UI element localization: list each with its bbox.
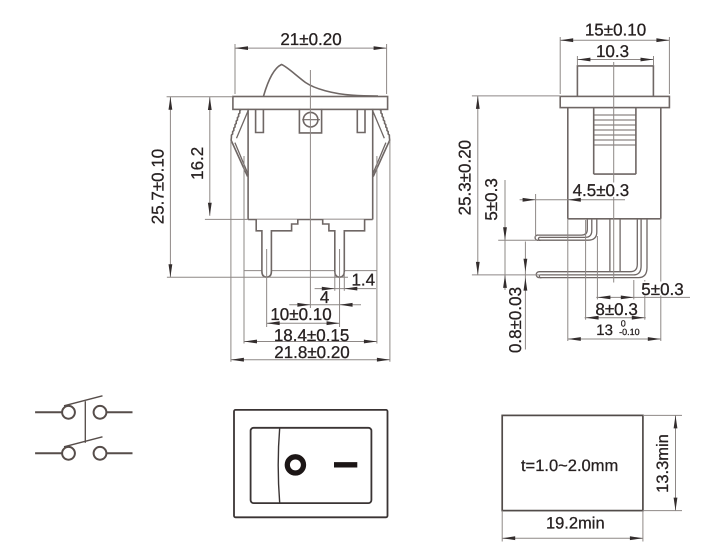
dim 1.4 line: [315, 288, 376, 290]
upper bent terminal lines: [535, 219, 647, 278]
svg-text:19.2min: 19.2min: [546, 515, 605, 533]
arrows dim 15: [560, 38, 573, 42]
ROCKER TOP VIEW GROUP: [234, 410, 388, 517]
arrows dim 21: [235, 46, 248, 50]
outer bezel: [234, 410, 388, 517]
arrows dim 10.3: [577, 58, 590, 62]
dim 5 right line: [596, 296, 690, 298]
dim 5 left ext (strip bottom extended): [498, 239, 537, 241]
right pin axis line: [339, 249, 341, 327]
svg-text:5±0.3: 5±0.3: [641, 280, 683, 299]
dim 21 extension lines: [234, 44, 236, 94]
side view dimension texts: [456, 20, 684, 353]
screw circle: [303, 112, 318, 127]
dim 19.2 line: [502, 537, 643, 539]
arrows dim 1.4: [322, 287, 335, 291]
mechanical link: [84, 401, 86, 443]
arrows dim 8: [586, 316, 599, 320]
arrows dim 16.2: [208, 97, 212, 110]
right snap wing inner lines: [373, 111, 386, 175]
SIDE VIEW DIMENSIONS: [472, 37, 690, 350]
wire left top: [35, 411, 62, 413]
side flange: [560, 96, 669, 107]
text mask 4.5: [571, 183, 631, 198]
right hanging tab: [357, 109, 365, 132]
dim 15 line: [560, 39, 669, 41]
side body bottom: [568, 218, 661, 220]
arrows dim 21.8: [231, 358, 244, 362]
svg-text:5±0.3: 5±0.3: [482, 178, 501, 220]
FRONT VIEW GROUP: [231, 65, 390, 220]
arrows dim 13: [568, 337, 581, 341]
wire right top: [106, 411, 132, 413]
arrows dim 13.3: [674, 415, 678, 428]
arrows dim 19.2: [502, 536, 515, 540]
side rocker button: [577, 66, 653, 97]
FRONT VIEW DIMENSIONS: [167, 44, 390, 362]
svg-text:21±0.20: 21±0.20: [280, 30, 341, 49]
dim 21.8 ext lines: [230, 141, 232, 362]
screw slot line: [302, 119, 320, 121]
arrows dim 5 right: [597, 296, 610, 300]
center line front view: [309, 70, 311, 308]
left pin axis line: [266, 249, 268, 327]
center screw block: [299, 109, 321, 133]
dim 4.5 ext line at bent tip: [535, 194, 537, 237]
svg-text:0.8±0.03: 0.8±0.03: [506, 287, 525, 353]
svg-text:10±0.10: 10±0.10: [270, 305, 331, 324]
svg-text:15±0.10: 15±0.10: [585, 20, 646, 39]
arrows dim 4: [297, 303, 310, 307]
detent strip bottom: [594, 173, 636, 175]
flange: [233, 97, 388, 110]
svg-text:t=1.0~2.0mm: t=1.0~2.0mm: [521, 457, 618, 475]
dim 13.3 line: [675, 415, 677, 510]
body right side: [372, 109, 374, 220]
dim 25.3 line: [477, 96, 479, 275]
dim 18.4 line: [244, 341, 377, 343]
svg-text:1.4: 1.4: [351, 270, 375, 289]
O symbol: [287, 457, 303, 473]
left snap wing serrated edge: [231, 110, 248, 177]
inner rocker window: [251, 428, 372, 503]
arrows dim 5 left: [503, 227, 507, 240]
dim 0.8 line: [524, 242, 526, 350]
dim 10.3 line: [577, 59, 653, 61]
svg-text:13.3min: 13.3min: [654, 434, 672, 493]
dim 4 line: [289, 304, 361, 306]
side view dimension arrows: [476, 38, 670, 341]
rocker actuator curve: [264, 65, 379, 97]
svg-text:13: 13: [596, 322, 613, 339]
dim 5 left line: [504, 180, 506, 290]
switch lever bottom: [64, 437, 103, 447]
svg-text:8±0.3: 8±0.3: [595, 300, 637, 319]
dim 21.8 line: [231, 359, 390, 361]
dim 10.3 ext lines (rocker sides up): [576, 56, 578, 66]
panel dim arrows: [502, 415, 677, 540]
lower mid terminal (face-on): [609, 219, 611, 272]
arrows dim 10: [267, 321, 280, 325]
rocker tilt edge: [278, 428, 280, 503]
contact circle pin 1: [62, 406, 75, 419]
left hanging tab: [256, 109, 264, 132]
svg-text:-0.10: -0.10: [619, 327, 640, 337]
right snap wing serrated edge: [373, 110, 390, 177]
right pin pedestal and pin: [323, 220, 365, 278]
dim 4.5 line: [520, 199, 625, 201]
dim 8 line: [585, 317, 646, 319]
switch lever top: [64, 396, 103, 406]
svg-text:25.7±0.10: 25.7±0.10: [149, 149, 168, 225]
detent ridges: [594, 115, 636, 145]
side body left: [567, 108, 569, 219]
dim 15 ext lines: [559, 37, 561, 94]
left pin pedestal and pin: [256, 220, 298, 278]
dim 16.2 line: [209, 97, 211, 216]
lower bent terminal lines: [539, 219, 637, 272]
left snap wing inner lines: [235, 111, 248, 175]
arrows dim 25.3: [476, 96, 480, 109]
dim 8 ext lines: [585, 220, 587, 320]
arrows dim 25.7: [169, 97, 173, 110]
contact circle pin 2: [94, 406, 107, 419]
dim 10 line: [267, 322, 340, 324]
svg-text:10.3: 10.3: [596, 42, 629, 61]
contact circle pin 3: [62, 447, 75, 460]
front view dimension texts: [149, 30, 376, 362]
side body right: [660, 108, 662, 219]
dim 13 line: [568, 338, 661, 340]
front view dimension arrows: [169, 46, 390, 361]
detent strip sides: [593, 108, 595, 175]
arrows dim 18.4: [244, 340, 257, 344]
dim 19.2 ext lines: [501, 511, 503, 542]
text mask 5 right: [641, 282, 684, 296]
dim 16.2 extension bottom (body bottom extended): [205, 218, 248, 220]
dim 25.7 line: [169, 97, 171, 278]
svg-text:25.3±0.20: 25.3±0.20: [456, 140, 475, 216]
dim 21 line: [235, 47, 387, 49]
svg-text:4.5±0.3: 4.5±0.3: [573, 181, 630, 200]
dim 25.7 extension bottom: [167, 276, 348, 278]
arrows dim 4.5: [523, 198, 536, 202]
body left side: [247, 109, 249, 220]
dim 25.7 extension top: [167, 96, 233, 98]
dim 25.3 ext top: [472, 95, 560, 97]
SCHEMATIC SYMBOL GROUP: [35, 396, 132, 460]
arrows dim 0.8: [524, 259, 528, 272]
body bottom: [248, 219, 373, 221]
panel cutout rectangle: [502, 415, 643, 510]
contact circle pin 4: [94, 447, 107, 460]
wire right bottom: [106, 452, 132, 454]
side center line: [613, 62, 615, 283]
svg-text:21.8±0.20: 21.8±0.20: [274, 343, 350, 362]
dim 25.3 ext bottom / strip mid extension: [472, 274, 542, 276]
dim 13 ext lines: [567, 219, 569, 341]
dim 5 right ext lines: [596, 236, 598, 299]
dim 13.3 ext lines: [643, 414, 682, 416]
SIDE VIEW GROUP: [535, 66, 669, 278]
right pin edge extension lines for dim 1.4: [334, 272, 336, 291]
dim 18.4 ext lines: [243, 156, 245, 344]
wire left bottom: [35, 452, 62, 454]
extension segments behind pins (back terminal strip edge): [244, 270, 377, 272]
svg-text:16.2: 16.2: [188, 147, 207, 180]
dash symbol: [334, 462, 357, 467]
